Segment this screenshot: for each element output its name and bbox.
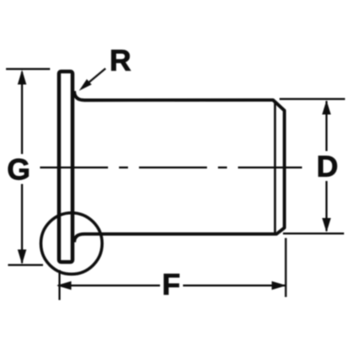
F arrow right xyxy=(272,281,287,290)
F left extension line xyxy=(59,270,61,300)
svg-text:G: G xyxy=(7,154,30,187)
G top extension line xyxy=(6,68,50,70)
F arrow left xyxy=(57,281,72,290)
svg-text:F: F xyxy=(162,269,180,302)
pin body outline xyxy=(74,91,284,242)
svg-text:D: D xyxy=(317,151,339,184)
R leader arrow xyxy=(79,69,106,91)
G arrow up xyxy=(18,70,27,85)
F dimension line xyxy=(58,285,160,287)
G arrow down xyxy=(18,250,27,265)
D arrow up xyxy=(322,100,331,114)
D dimension line xyxy=(326,101,328,151)
centerline xyxy=(40,167,302,169)
G bottom extension line xyxy=(8,264,43,266)
detail circle xyxy=(41,213,102,274)
chamfer edge line xyxy=(274,101,276,233)
G dimension line xyxy=(21,72,23,154)
D arrow down xyxy=(322,218,331,232)
D top extension line xyxy=(280,98,346,100)
D bottom extension line xyxy=(283,233,344,235)
svg-text:R: R xyxy=(110,45,132,78)
pin head (flange) xyxy=(59,72,73,263)
F right extension line xyxy=(285,238,287,297)
